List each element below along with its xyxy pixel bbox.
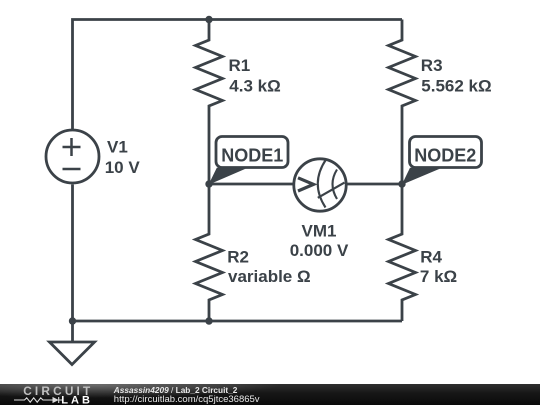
resistor R3 [389,20,416,185]
junction dot ground [69,317,76,324]
node NODE2 flag [402,137,482,185]
svg-text:R1: R1 [229,56,251,75]
junction dot node NODE2 [398,180,405,187]
svg-text:R2: R2 [227,248,249,267]
junction dot node NODE1 [205,180,212,187]
ground [50,321,95,365]
svg-text:NODE1: NODE1 [221,145,283,165]
resistor R1 [196,20,223,185]
svg-text:7 kΩ: 7 kΩ [420,267,457,286]
wire middle right (voltmeter to NODE2) [345,183,402,186]
svg-text:R4: R4 [420,248,442,267]
footer bar [0,384,540,405]
resistor R4 [389,184,416,321]
voltmeter VM1 [294,159,346,211]
svg-text:LAB: LAB [61,395,93,405]
node NODE1 flag [209,137,289,185]
svg-text:NODE2: NODE2 [414,145,476,165]
svg-text:VM1: VM1 [302,221,337,240]
junction dot top [205,16,212,23]
footer logo resistor-diode doodle [14,397,62,403]
resistor R2 [196,184,223,321]
svg-text:5.562 kΩ: 5.562 kΩ [421,76,491,95]
voltage source V1 [46,130,99,183]
svg-text:V1: V1 [107,137,128,156]
wire bottom rail from V1 to R4 [73,185,403,322]
junction dot bottom [205,317,212,324]
wire middle left (NODE1 to voltmeter) [209,183,295,186]
svg-text:4.3 kΩ: 4.3 kΩ [229,76,280,95]
svg-text:0.000 V: 0.000 V [290,241,349,260]
wire top rail from V1 to R3 [73,20,403,130]
svg-text:R3: R3 [421,56,443,75]
svg-text:variable Ω: variable Ω [228,267,311,286]
svg-text:http://circuitlab.com/cq5jtce3: http://circuitlab.com/cq5jtce36865v [114,394,260,405]
svg-text:10 V: 10 V [105,158,141,177]
